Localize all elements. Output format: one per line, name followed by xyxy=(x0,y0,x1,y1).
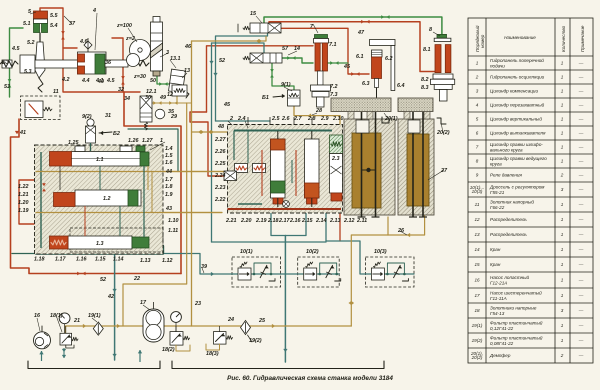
svg-text:Г54-13: Г54-13 xyxy=(490,311,505,316)
valve 11 dashed box xyxy=(21,96,61,120)
svg-text:19(2): 19(2) xyxy=(249,338,262,344)
relief valve 18(3) xyxy=(214,332,227,345)
cylinder 7 xyxy=(315,35,328,39)
svg-text:13.1: 13.1 xyxy=(170,56,181,62)
cylinder 1.1 xyxy=(71,152,141,167)
gear shaft xyxy=(138,48,142,52)
svg-text:20(1): 20(1) xyxy=(384,116,398,122)
svg-text:Кран: Кран xyxy=(490,247,501,252)
svg-text:2.5: 2.5 xyxy=(271,116,280,122)
svg-text:7.1: 7.1 xyxy=(329,42,337,48)
svg-text:46: 46 xyxy=(184,44,192,50)
svg-text:Золотник напорный: Золотник напорный xyxy=(490,199,534,205)
gear pump 17 xyxy=(143,309,164,342)
vane pump 16 xyxy=(34,332,51,349)
gear z=2 xyxy=(127,54,140,67)
wire red top line 47 to cylinder 8 xyxy=(269,22,435,72)
filter 19(1) xyxy=(93,322,103,335)
wire teal long drain to tank xyxy=(284,236,286,363)
svg-text:8: 8 xyxy=(476,159,479,164)
svg-text:6.4: 6.4 xyxy=(397,83,405,89)
svg-text:—: — xyxy=(578,323,584,328)
svg-text:Примечание: Примечание xyxy=(580,25,585,52)
svg-text:—: — xyxy=(578,293,584,298)
wire teal line 42 xyxy=(114,254,116,360)
svg-text:Рис. 60. Гидравлическая схема: Рис. 60. Гидравлическая схема станка мод… xyxy=(227,374,393,382)
svg-text:18: 18 xyxy=(474,308,480,313)
tank top wells xyxy=(356,120,369,133)
panel 1 lower sub-block border xyxy=(70,228,163,252)
svg-text:Г11-11А: Г11-11А xyxy=(490,296,507,301)
svg-text:1: 1 xyxy=(561,145,564,150)
svg-text:Г55-21: Г55-21 xyxy=(490,190,505,195)
wire red main drop from valve 11 to bottom bus, lines 41/52/22 xyxy=(11,119,182,274)
damper 20(2) hook xyxy=(437,118,446,124)
spool 2.1 xyxy=(271,139,286,198)
svg-text:10(3): 10(3) xyxy=(374,249,387,255)
svg-text:1.11: 1.11 xyxy=(168,228,178,234)
tank 27 rods xyxy=(412,112,414,217)
svg-text:2: 2 xyxy=(560,173,564,178)
svg-text:4.5: 4.5 xyxy=(11,46,20,52)
tank 2.11 rods xyxy=(361,112,363,217)
svg-text:Б2: Б2 xyxy=(113,131,120,137)
svg-text:6.1: 6.1 xyxy=(356,54,364,60)
svg-text:1: 1 xyxy=(561,61,564,66)
svg-text:22: 22 xyxy=(133,276,140,282)
svg-text:2.6: 2.6 xyxy=(281,116,290,122)
svg-text:1.14: 1.14 xyxy=(113,257,124,263)
svg-text:2.25: 2.25 xyxy=(214,161,226,167)
panel 2 top ports xyxy=(247,117,249,125)
valve 12.1 xyxy=(140,96,152,122)
svg-text:2.23: 2.23 xyxy=(214,185,226,191)
svg-text:2.3: 2.3 xyxy=(331,156,340,162)
wire teal spool U drain xyxy=(271,213,306,236)
svg-text:45: 45 xyxy=(343,64,351,70)
svg-text:24: 24 xyxy=(227,317,234,323)
svg-text:—: — xyxy=(578,75,584,80)
valve 14 xyxy=(250,53,282,63)
svg-text:48: 48 xyxy=(217,124,224,130)
svg-text:16: 16 xyxy=(474,278,480,283)
svg-text:9(2): 9(2) xyxy=(82,114,92,120)
svg-text:1.22: 1.22 xyxy=(18,184,29,190)
svg-text:—: — xyxy=(578,187,584,192)
svg-text:2.17: 2.17 xyxy=(278,218,290,224)
svg-text:—: — xyxy=(578,117,584,122)
wire red loop around valve 12.1 line 31 xyxy=(124,92,181,274)
svg-text:z=30: z=30 xyxy=(133,74,146,80)
svg-text:1.18: 1.18 xyxy=(34,257,45,263)
svg-text:1.27: 1.27 xyxy=(142,138,153,144)
svg-text:52: 52 xyxy=(100,277,106,283)
relief valve 18(2) xyxy=(170,332,183,346)
svg-text:Фильтр пластинчатый: Фильтр пластинчатый xyxy=(490,320,543,326)
svg-text:2: 2 xyxy=(229,116,233,122)
svg-text:—: — xyxy=(578,159,584,164)
svg-text:1.10: 1.10 xyxy=(168,218,179,224)
svg-text:z=2: z=2 xyxy=(125,36,135,42)
svg-text:—: — xyxy=(578,103,584,108)
cap to tank stubs xyxy=(348,112,354,120)
wire olive panel 1 line 43 xyxy=(36,212,222,214)
damper 20(1) hook xyxy=(382,117,389,123)
svg-text:Демпфер: Демпфер xyxy=(489,353,511,358)
svg-text:2.12: 2.12 xyxy=(343,218,355,224)
svg-text:2.10: 2.10 xyxy=(332,116,344,122)
svg-text:2.26: 2.26 xyxy=(214,149,226,155)
damper 6.3 body xyxy=(372,57,382,79)
panel 2 inlet cross xyxy=(224,171,237,181)
gauge 18(1) xyxy=(59,313,70,324)
svg-text:12: 12 xyxy=(167,92,173,98)
svg-text:2.9: 2.9 xyxy=(320,116,329,122)
pressure valve 9(1) xyxy=(288,90,301,106)
svg-text:3: 3 xyxy=(561,187,564,192)
svg-text:7.2: 7.2 xyxy=(330,84,338,90)
svg-text:Цилиндр компенсации: Цилиндр компенсации xyxy=(490,89,538,94)
svg-text:44: 44 xyxy=(165,169,172,175)
svg-text:2.16: 2.16 xyxy=(289,218,301,224)
svg-text:41: 41 xyxy=(19,130,26,136)
wire teal feed to valve 14 xyxy=(212,43,265,53)
lever 5.2 xyxy=(35,42,45,78)
arrow B1 xyxy=(273,96,284,97)
wire olive tank bus 26 xyxy=(351,215,424,326)
svg-text:—: — xyxy=(578,353,584,358)
svg-text:18(3): 18(3) xyxy=(206,351,219,357)
wire red node 34 to valve 12.1 xyxy=(63,48,140,92)
panel 2 bottom rails xyxy=(238,203,262,205)
svg-text:19(1): 19(1) xyxy=(88,313,101,319)
wire red panel 1 left loop xyxy=(19,180,36,224)
svg-text:43: 43 xyxy=(165,206,172,212)
svg-text:Насос лопастный: Насос лопастный xyxy=(490,274,530,280)
svg-text:Насос шестеренчатый: Насос шестеренчатый xyxy=(490,290,542,296)
svg-text:Б1: Б1 xyxy=(262,95,269,101)
svg-text:1: 1 xyxy=(561,247,564,252)
svg-text:Г12-21А: Г12-21А xyxy=(490,280,507,285)
svg-text:Цилиндр вертикальный: Цилиндр вертикальный xyxy=(490,116,542,122)
svg-text:1.13: 1.13 xyxy=(140,258,151,264)
svg-text:—: — xyxy=(578,247,584,252)
wire red gear column 33 xyxy=(112,38,123,92)
svg-text:1.17: 1.17 xyxy=(55,257,66,263)
tank 2.11 body xyxy=(344,119,395,215)
svg-text:2.4: 2.4 xyxy=(237,116,246,122)
svg-text:вального круга: вального круга xyxy=(490,147,523,152)
gauge near 12.1 xyxy=(155,109,165,119)
svg-text:—: — xyxy=(578,232,584,237)
svg-text:1: 1 xyxy=(561,217,564,222)
svg-text:1.6: 1.6 xyxy=(165,160,173,166)
cylinder 8 xyxy=(437,34,447,38)
svg-text:8.2: 8.2 xyxy=(421,77,429,83)
wire olive bottom bus 21/24/25 xyxy=(65,325,351,327)
valve 2.3 xyxy=(330,135,343,154)
svg-text:1: 1 xyxy=(561,117,564,122)
panel 1 inner pipes xyxy=(99,166,101,190)
cylinder 4 xyxy=(78,52,107,74)
hydro-panel 1 transverse feed body xyxy=(35,145,164,254)
arrow B2 xyxy=(99,132,112,133)
svg-text:57: 57 xyxy=(282,46,289,52)
svg-text:Б3: Б3 xyxy=(2,60,9,66)
svg-text:30: 30 xyxy=(145,95,151,101)
svg-text:34: 34 xyxy=(124,96,130,102)
svg-text:z=100: z=100 xyxy=(116,23,132,29)
svg-text:1.20: 1.20 xyxy=(18,200,29,206)
wire olive panel 1 lines 44 / 43 xyxy=(36,171,224,173)
svg-text:53: 53 xyxy=(4,84,10,90)
svg-text:2: 2 xyxy=(560,353,564,358)
panel 1 green rail xyxy=(40,152,42,248)
svg-text:—: — xyxy=(578,131,584,136)
svg-text:Распределитель: Распределитель xyxy=(490,217,527,222)
svg-text:25: 25 xyxy=(258,318,266,324)
cylinder 7 collars xyxy=(311,85,331,91)
svg-text:4.2: 4.2 xyxy=(61,77,70,83)
svg-text:3: 3 xyxy=(561,308,564,313)
leader lines xyxy=(95,13,97,50)
svg-text:17: 17 xyxy=(474,293,480,298)
spool 2.2 xyxy=(305,139,320,198)
svg-text:1.9: 1.9 xyxy=(165,192,173,198)
wire olive junction to valve 15 xyxy=(192,37,267,42)
wire red drop into panel 2 xyxy=(190,112,224,176)
svg-text:—: — xyxy=(578,217,584,222)
svg-text:—: — xyxy=(578,308,584,313)
svg-text:11: 11 xyxy=(475,202,480,207)
damper 6 bracket xyxy=(370,40,396,46)
svg-text:21: 21 xyxy=(73,318,80,324)
svg-text:27: 27 xyxy=(440,168,448,174)
svg-text:5.1: 5.1 xyxy=(23,21,31,27)
svg-text:—: — xyxy=(578,145,584,150)
svg-text:1: 1 xyxy=(561,262,564,267)
svg-text:47: 47 xyxy=(357,30,365,36)
svg-text:4: 4 xyxy=(476,103,479,108)
svg-text:1: 1 xyxy=(561,338,564,343)
throttle 10(3) dashed box xyxy=(365,257,414,287)
wire dark-green relay link xyxy=(128,129,178,172)
svg-text:49: 49 xyxy=(159,95,166,101)
svg-text:1: 1 xyxy=(561,202,564,207)
svg-text:1.8: 1.8 xyxy=(165,184,173,190)
svg-text:10(2): 10(2) xyxy=(306,249,319,255)
svg-text:Количество: Количество xyxy=(561,25,566,52)
svg-text:Фильтр пластинчатый: Фильтр пластинчатый xyxy=(490,335,543,341)
wire olive return line 48 xyxy=(192,131,228,133)
filter 19(2) xyxy=(241,321,251,335)
svg-text:29: 29 xyxy=(170,114,177,120)
svg-text:1: 1 xyxy=(561,89,564,94)
svg-text:Реле давления: Реле давления xyxy=(490,173,522,178)
tank bracket right xyxy=(172,361,384,369)
svg-text:50: 50 xyxy=(150,78,156,84)
wire green top line to cylinder 8 xyxy=(264,17,442,34)
svg-text:16: 16 xyxy=(34,313,41,319)
svg-text:0,12Г41-22: 0,12Г41-22 xyxy=(490,326,514,331)
svg-text:6: 6 xyxy=(476,131,479,136)
tank rod feet xyxy=(358,216,366,218)
valve 15 xyxy=(250,23,281,33)
compensation cylinder 3 xyxy=(151,22,163,71)
wire olive main riser 46/23 xyxy=(191,41,193,326)
wire red cylinder 5 head line 37 xyxy=(40,8,77,48)
throttle 10(1) dashed box xyxy=(232,257,281,287)
svg-text:13: 13 xyxy=(474,232,480,237)
svg-text:12: 12 xyxy=(474,217,480,222)
wire red panel 2 stub xyxy=(339,205,341,241)
svg-text:Гидропанель осцилляции: Гидропанель осцилляции xyxy=(490,75,545,80)
svg-text:52: 52 xyxy=(219,58,225,64)
svg-text:4.6: 4.6 xyxy=(79,39,88,45)
svg-text:4.5: 4.5 xyxy=(106,78,115,84)
svg-text:Цилиндр перезахватный: Цилиндр перезахватный xyxy=(490,102,545,108)
svg-text:Гидропанель поперечной: Гидропанель поперечной xyxy=(490,57,544,63)
svg-text:Г66-22: Г66-22 xyxy=(490,205,505,210)
svg-text:9(1): 9(1) xyxy=(281,82,291,88)
panel 2 spool stems xyxy=(277,131,279,139)
svg-text:1: 1 xyxy=(476,61,479,66)
svg-text:1.19: 1.19 xyxy=(18,208,29,214)
svg-text:2.27: 2.27 xyxy=(214,137,226,143)
wire green valve 14 to cylinder 7 xyxy=(282,58,313,63)
svg-text:19(2): 19(2) xyxy=(472,338,483,343)
svg-text:2.20: 2.20 xyxy=(240,218,252,224)
svg-text:—: — xyxy=(578,61,584,66)
svg-text:номер: номер xyxy=(480,34,485,48)
wire green drain left edge 53 xyxy=(10,28,24,97)
gauge 18(2) xyxy=(171,312,182,323)
svg-text:1: 1 xyxy=(561,159,564,164)
panel 2 green rail xyxy=(234,130,332,132)
svg-text:11: 11 xyxy=(53,89,59,95)
svg-text:2.11: 2.11 xyxy=(356,218,367,224)
svg-text:круга: круга xyxy=(490,161,502,166)
wire teal panel 2 drains to throttle 10(3) xyxy=(325,213,327,241)
svg-text:1.2: 1.2 xyxy=(103,196,111,202)
wire teal panel 1 drain line 39 xyxy=(163,254,232,275)
wire green valve 13 inlet 50 xyxy=(157,71,170,84)
wire red valve 15 to damper 6 line 45 xyxy=(281,28,369,74)
wire olive under-panel return xyxy=(123,103,187,326)
svg-text:1: 1 xyxy=(561,131,564,136)
svg-text:Кран: Кран xyxy=(490,262,501,267)
svg-text:2.15: 2.15 xyxy=(301,218,313,224)
svg-text:5.4: 5.4 xyxy=(50,23,58,29)
svg-text:1.15: 1.15 xyxy=(95,257,106,263)
svg-text:1: 1 xyxy=(561,232,564,237)
svg-text:8.3: 8.3 xyxy=(421,85,429,91)
svg-text:1.16: 1.16 xyxy=(76,257,87,263)
svg-text:5.3: 5.3 xyxy=(24,69,32,75)
svg-text:1: 1 xyxy=(561,103,564,108)
cylinder 8 collars xyxy=(430,79,454,84)
svg-text:0,08Г41-22: 0,08Г41-22 xyxy=(490,341,514,346)
svg-text:1: 1 xyxy=(561,323,564,328)
svg-text:23: 23 xyxy=(194,301,201,307)
wire olive valve 13 drain 30/49 xyxy=(146,102,192,104)
svg-text:15: 15 xyxy=(474,262,480,267)
svg-text:2.14: 2.14 xyxy=(315,218,327,224)
hydro-panel 2 oscillation body xyxy=(228,125,343,214)
svg-text:1.26: 1.26 xyxy=(128,138,139,144)
svg-text:1.5: 1.5 xyxy=(165,153,173,159)
svg-text:—: — xyxy=(578,262,584,267)
svg-text:18(2): 18(2) xyxy=(162,347,175,353)
svg-text:2.22: 2.22 xyxy=(214,197,226,203)
svg-text:1: 1 xyxy=(561,278,564,283)
cylinder 5 xyxy=(34,11,48,19)
svg-text:2.19: 2.19 xyxy=(255,218,267,224)
svg-text:18(1): 18(1) xyxy=(50,313,63,319)
svg-text:32: 32 xyxy=(118,87,124,93)
svg-text:1.4: 1.4 xyxy=(165,146,173,152)
left stop block xyxy=(2,60,12,68)
svg-text:31: 31 xyxy=(105,113,111,119)
flexible link left xyxy=(0,61,18,67)
svg-text:2.7: 2.7 xyxy=(293,116,302,122)
valve 6 xyxy=(172,85,187,96)
svg-text:10(1): 10(1) xyxy=(240,249,253,255)
svg-text:Цилиндр выталкивателя: Цилиндр выталкивателя xyxy=(490,131,546,136)
svg-text:6.3: 6.3 xyxy=(362,81,370,87)
svg-text:2: 2 xyxy=(475,75,479,80)
cylinder 1.2 xyxy=(75,190,141,206)
svg-text:Наименование: Наименование xyxy=(504,35,536,40)
valve 13 xyxy=(169,69,186,93)
panel 1 red arrows xyxy=(42,183,45,186)
relief valve 18(1) xyxy=(60,333,72,345)
svg-text:5: 5 xyxy=(476,117,479,122)
svg-text:42: 42 xyxy=(107,294,114,300)
grinding head cap left xyxy=(331,98,391,112)
svg-text:—: — xyxy=(578,338,584,343)
svg-text:6.2: 6.2 xyxy=(385,56,393,62)
wire dark-green panel 1 bottom edge xyxy=(36,222,163,254)
wire green to pressure valve 9(1) xyxy=(272,63,294,90)
tank 2.11 brown core xyxy=(352,133,381,208)
svg-text:1.12: 1.12 xyxy=(162,258,173,264)
svg-text:10(3): 10(3) xyxy=(472,189,483,194)
svg-text:1.7: 1.7 xyxy=(165,177,173,183)
svg-text:—: — xyxy=(578,278,584,283)
cylinder 1.3 xyxy=(68,236,132,249)
pressure relay 9(2) xyxy=(86,126,96,143)
panel 2 relief valves xyxy=(235,164,248,173)
svg-text:4.4: 4.4 xyxy=(81,78,90,84)
wire olive valve 9(1) line 28 xyxy=(294,106,340,125)
svg-text:45: 45 xyxy=(223,102,231,108)
svg-text:5.2: 5.2 xyxy=(27,40,35,46)
svg-text:14: 14 xyxy=(474,247,480,252)
flexible coupling 36 xyxy=(128,60,149,66)
svg-text:7: 7 xyxy=(476,145,479,150)
svg-text:2.18: 2.18 xyxy=(267,218,279,224)
tank bracket left xyxy=(28,361,160,369)
svg-text:36: 36 xyxy=(105,60,112,66)
svg-text:1: 1 xyxy=(561,75,564,80)
svg-text:9: 9 xyxy=(476,173,479,178)
svg-text:2.13: 2.13 xyxy=(329,218,341,224)
svg-text:8: 8 xyxy=(429,27,432,33)
svg-text:1.21: 1.21 xyxy=(18,192,29,198)
svg-text:1: 1 xyxy=(561,293,564,298)
check valve 4.6 xyxy=(84,41,92,49)
